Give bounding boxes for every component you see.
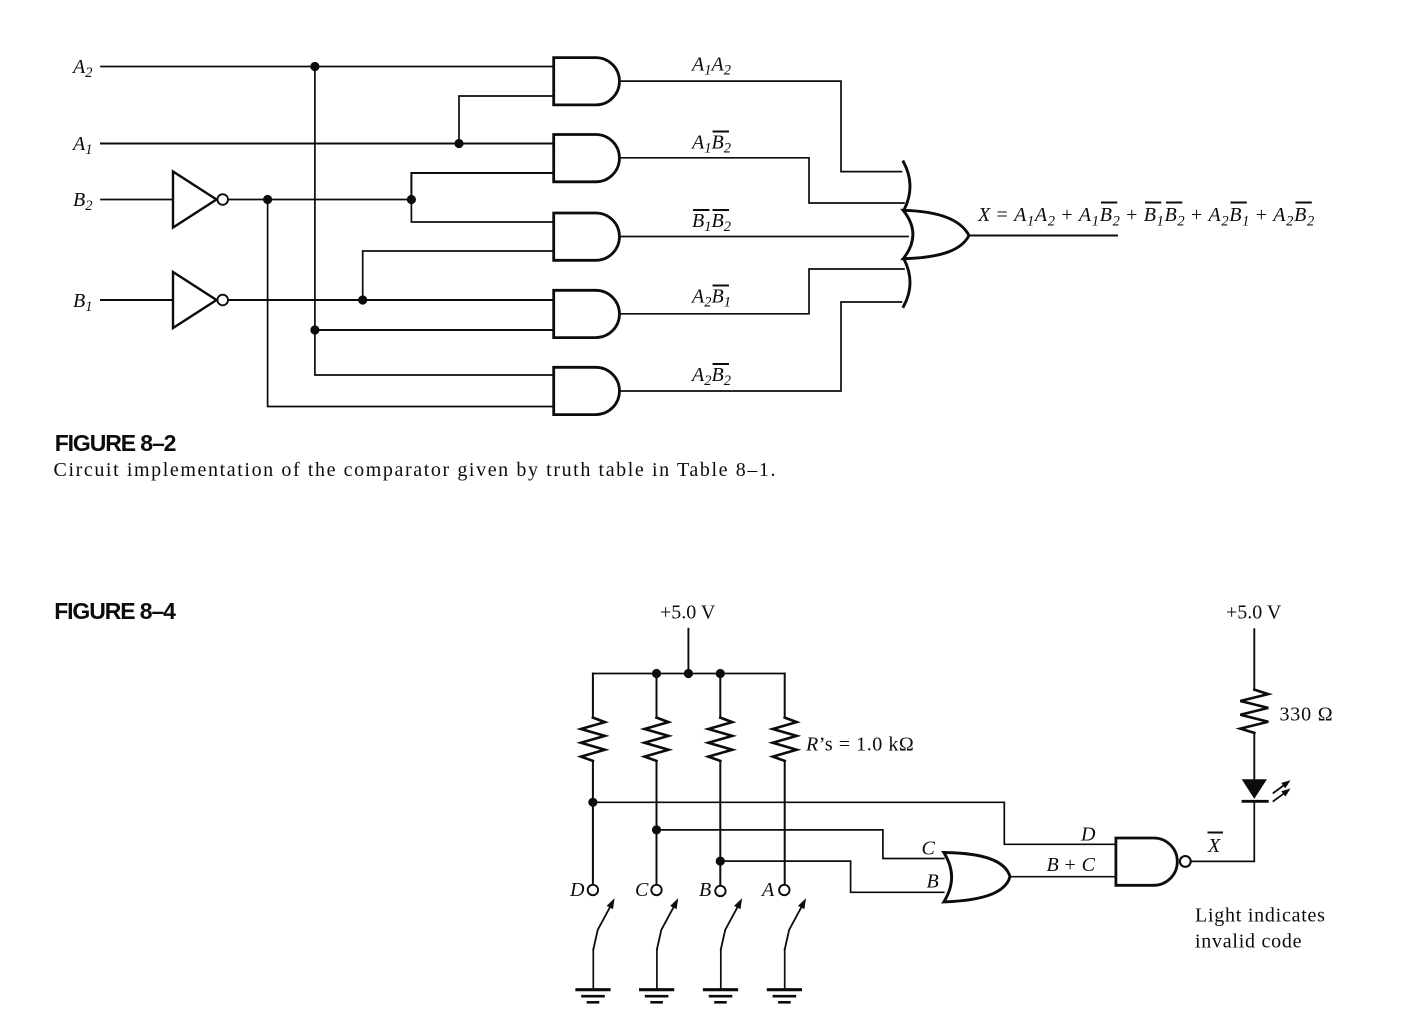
node rail junction B [716,669,725,678]
svg-text:X: X [1207,835,1221,857]
LED D1 [1242,779,1268,801]
ground C [641,990,673,1003]
wire NAND output to LED [1191,803,1255,862]
overbars in formula [1102,202,1311,204]
svg-text:B1B2: B1B2 [692,210,731,235]
svg-text:B + C: B + C [1047,854,1096,876]
node junction A2-G4 [310,325,319,334]
wire G1 output to OR [619,81,901,172]
inverter on B2 [173,172,228,228]
svg-text:A: A [760,879,775,901]
svg-text:B1: B1 [73,290,92,315]
wire B to OR [720,861,944,892]
AND gate G1 [554,58,620,105]
svg-text:X = A1A2 + A1B2 + B1B2 + A2B1: X = A1A2 + A1B2 + B1B2 + A2B1 + A2B2 [977,204,1315,230]
wire C to OR [657,830,944,859]
LED light arrows [1274,780,1291,801]
wire top rail [593,673,785,675]
AND gate G3 [554,213,620,260]
wire LED to resistor [1253,733,1255,779]
resistor R-B [708,674,732,886]
wire B2 to inverter [101,199,172,201]
wire B2bar branch down to G5 [268,200,554,407]
svg-text:Light indicates: Light indicates [1195,905,1326,927]
svg-text:A1A2: A1A2 [690,54,731,79]
AND gate G2 [554,135,620,182]
wire A1 branch up to G1 [459,96,554,144]
wire A1 horizontal [101,143,554,145]
ground A [768,990,800,1003]
ground D [577,990,609,1003]
svg-text:R’s = 1.0 kΩ: R’s = 1.0 kΩ [805,734,914,756]
wire G2 output to OR [619,158,904,203]
AND gate G4 [554,290,620,337]
svg-text:C: C [922,838,936,860]
node junction D [588,798,597,807]
switch A [779,885,806,988]
node junction A2 [310,62,319,71]
svg-text:+5.0 V: +5.0 V [1226,602,1282,624]
wire G3 output to OR [619,236,908,238]
svg-text:A2B1: A2B1 [690,286,731,311]
switch B [715,886,742,988]
svg-text:C: C [635,879,649,901]
svg-text:+5.0 V: +5.0 V [660,602,716,624]
nand-gate U3 [1116,838,1177,885]
ground B [705,990,737,1003]
node rail junction +5V [684,669,693,678]
node rail junction C [652,669,661,678]
resistor R-C [645,674,669,885]
svg-text:B: B [927,871,939,893]
svg-text:330 Ω: 330 Ω [1280,704,1334,726]
node junction C [652,825,661,834]
wire B2bar branch down to G3 [411,200,553,223]
AND gate G5 [554,367,620,414]
svg-text:A2: A2 [71,56,92,81]
svg-text:A1: A1 [71,133,92,158]
wire A2 branch to G4 [315,329,554,331]
wire B1bar horizontal to gate G4 [228,299,554,301]
wire B1 to inverter [101,299,172,301]
node junction B2bar-2 [407,195,416,204]
wire B2bar horizontal [228,199,411,201]
wire D to NAND [593,802,1116,844]
or-gate U2 [944,853,1010,902]
wire B1bar branch up to G3 [363,251,554,300]
switch C [651,885,678,988]
wire G5 output to OR [619,302,901,391]
inverter on B1 [173,272,228,328]
svg-text:D: D [1080,824,1096,846]
wire G4 output to OR [619,269,904,314]
or-gate U1 (5-input OR with wings) [903,162,969,307]
wire A2 vertical branch [315,67,554,376]
resistor 330 [1240,690,1268,733]
wire +5V stem [687,629,689,674]
switch D [588,885,615,988]
node junction A1 [454,139,463,148]
node junction B [716,857,725,866]
svg-text:invalid code: invalid code [1195,931,1302,953]
node junction B2bar-1 [263,195,272,204]
svg-text:D: D [569,879,585,901]
resistor R-A [773,674,797,885]
svg-text:A2B2: A2B2 [690,364,731,389]
svg-text:Circuit implementation of the: Circuit implementation of the comparator… [54,459,778,481]
node junction B1bar [358,295,367,304]
wire A2 horizontal [101,66,554,68]
svg-text:B2: B2 [73,189,92,214]
wire B2bar branch up to G2 [411,173,553,200]
wire resistor to +5V [1253,629,1255,689]
resistor R-D [581,674,605,885]
svg-text:B: B [699,879,711,901]
svg-text:A1B2: A1B2 [690,132,731,157]
wire OR output to NAND [1010,876,1116,878]
svg-text:FIGURE 8–4: FIGURE 8–4 [54,598,176,624]
svg-text:FIGURE 8–2: FIGURE 8–2 [55,430,176,456]
wire X output [969,235,1117,237]
